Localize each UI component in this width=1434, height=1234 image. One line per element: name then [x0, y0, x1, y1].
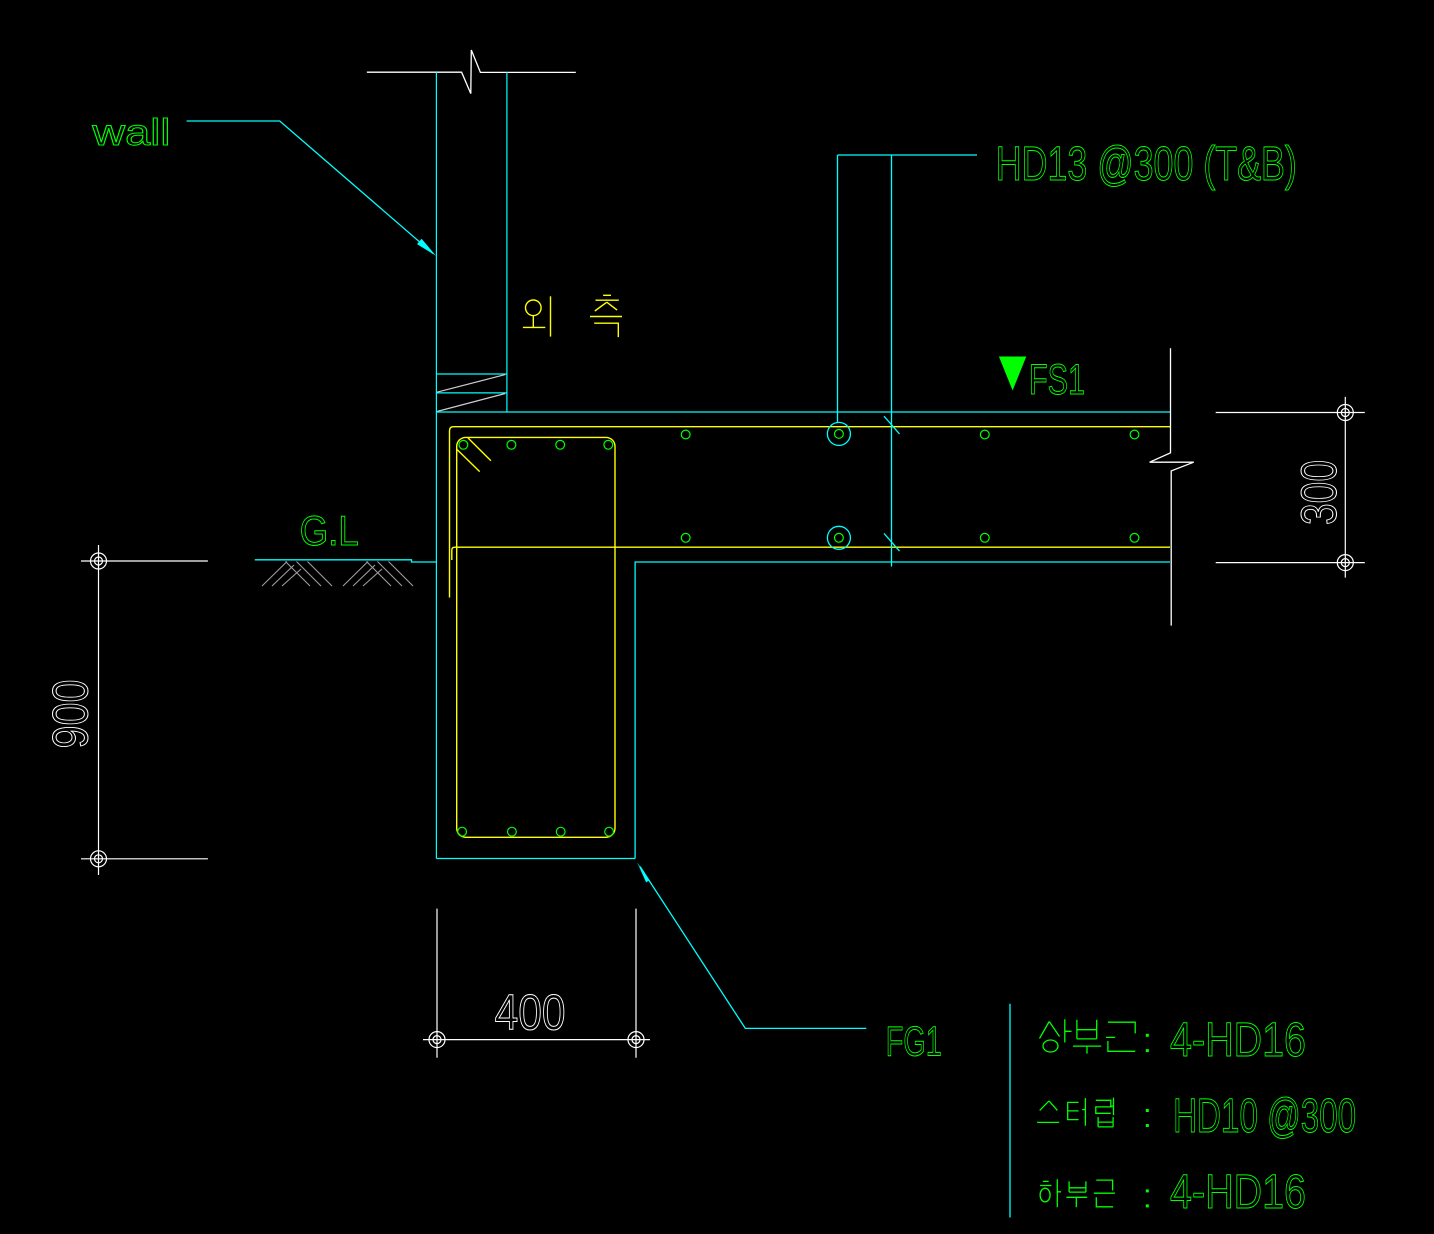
svg-text:300: 300 — [1291, 460, 1347, 525]
hangul 하부근 row3 — [1040, 1179, 1115, 1207]
FG1 leader — [640, 867, 866, 1029]
svg-text:G.L: G.L — [300, 507, 359, 554]
hangul 스터럽 row2 — [1037, 1098, 1113, 1127]
hangul 상부근 row1 — [1040, 1019, 1136, 1053]
svg-text:4-HD16: 4-HD16 — [1170, 1014, 1306, 1067]
slab rebar bottom bar — [452, 547, 1170, 560]
girder bottom — [436, 858, 635, 860]
svg-text:FG1: FG1 — [886, 1018, 942, 1065]
dimension 300 right — [1216, 397, 1365, 578]
svg-text:wall: wall — [91, 112, 170, 153]
wall leader arrowhead — [417, 239, 436, 256]
slab top — [436, 411, 1170, 413]
table separator line — [1009, 1004, 1011, 1218]
ground hatch — [262, 562, 413, 587]
FS1 marker triangle — [999, 357, 1026, 391]
dimension 900 left — [81, 545, 208, 875]
wall leader — [187, 121, 433, 254]
svg-text:400: 400 — [495, 985, 566, 1041]
slab bottom / girder right — [635, 562, 1170, 859]
girder main bars (green circles) — [458, 440, 614, 836]
svg-text:FS1: FS1 — [1029, 356, 1085, 404]
slab rebar yellow top bar — [450, 427, 1171, 838]
slab distribution bars (green circles) — [681, 430, 1139, 543]
dimension 400 bottom — [423, 909, 650, 1058]
HD13 leader lines — [837, 155, 839, 422]
wall — [436, 72, 507, 858]
svg-text:900: 900 — [43, 680, 99, 749]
ground line G.L — [255, 560, 437, 562]
table colons — [1146, 1034, 1149, 1208]
FG1 arrowhead — [637, 862, 652, 882]
stirrup — [457, 437, 615, 837]
HD13 leader circles (cyan) — [827, 155, 977, 567]
leader tick marks — [884, 416, 900, 434]
wall joint lines — [436, 373, 507, 375]
svg-text:HD13 @300 (T&B): HD13 @300 (T&B) — [996, 138, 1297, 191]
wall joint diagonals — [437, 375, 505, 412]
stirrup hook — [468, 438, 491, 461]
hangul 외측 (yellow) — [523, 295, 622, 337]
wall break line top — [367, 50, 576, 94]
svg-text:HD10 @300: HD10 @300 — [1173, 1090, 1356, 1143]
slab and girder concrete outline — [436, 412, 1170, 859]
slab break line right — [1150, 348, 1194, 625]
svg-text:4-HD16: 4-HD16 — [1170, 1166, 1306, 1219]
